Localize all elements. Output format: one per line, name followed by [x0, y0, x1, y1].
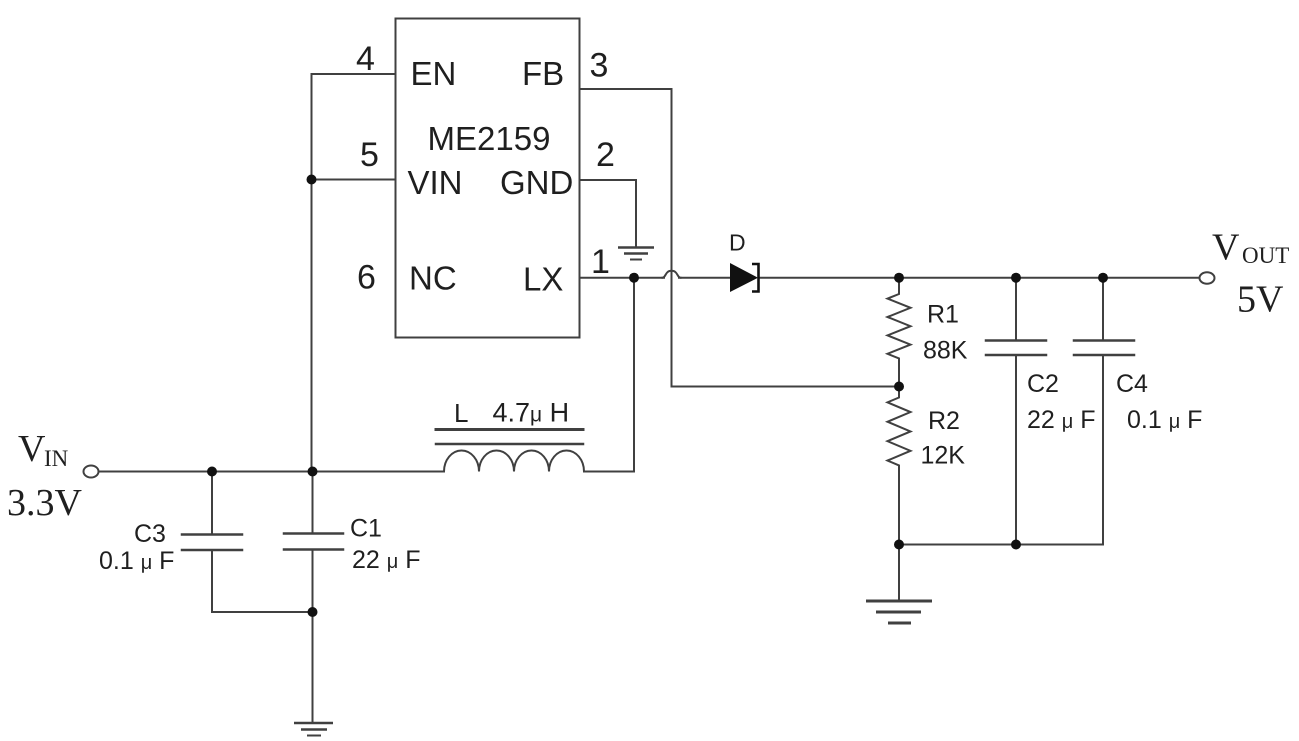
capacitor C3 plates: [182, 533, 242, 536]
svg-text:4: 4: [356, 40, 375, 78]
ground bottom-left under C1: [294, 723, 333, 736]
svg-text:D: D: [729, 230, 746, 256]
wire input terminal to inductor: [99, 471, 445, 473]
wire diode cathode to output terminal: [759, 277, 1200, 279]
svg-text:C3: C3: [134, 520, 166, 548]
inductor L winding: [444, 451, 584, 472]
wire LX junction down to inductor: [633, 278, 635, 472]
svg-text:5V: 5V: [1237, 279, 1284, 321]
wire R2 bottom ground rail: [899, 544, 1103, 546]
node R2/ground rail junction: [894, 540, 904, 550]
wire EN pin 4 horizontal: [312, 73, 396, 75]
capacitor C3 top lead: [211, 472, 213, 535]
wire FB to divider junction: [672, 386, 900, 388]
svg-text:0.1 μ F: 0.1 μ F: [99, 547, 174, 575]
svg-text:NC: NC: [409, 260, 457, 297]
node VIN pin junction: [307, 175, 317, 185]
svg-text:IN: IN: [44, 446, 69, 471]
diode D cathode bracket: [752, 264, 759, 292]
wire ground stem under R2: [898, 545, 900, 601]
capacitor C4 bottom lead: [1102, 355, 1104, 545]
wire FB vertical: [671, 89, 673, 387]
svg-text:C1: C1: [350, 515, 382, 543]
wire inductor right to LX vertical: [584, 471, 634, 473]
svg-text:VIN: VIN: [408, 164, 463, 201]
svg-text:L: L: [454, 398, 468, 428]
ground under R2: [866, 601, 932, 623]
svg-text:V: V: [18, 428, 46, 470]
capacitor C2 plates: [986, 339, 1046, 342]
capacitor C1 plates: [284, 532, 343, 535]
ground near GND pin: [618, 248, 654, 260]
node C1/C3 bottom junction: [308, 607, 318, 617]
capacitor C2 bottom lead: [1015, 355, 1017, 545]
svg-text:1: 1: [591, 243, 610, 281]
node R1/R2 FB junction: [894, 382, 904, 392]
node input/C3 junction: [207, 467, 217, 477]
svg-text:EN: EN: [411, 55, 457, 92]
wire GND vertical to ground: [635, 180, 637, 247]
inductor core bar top: [436, 428, 583, 431]
capacitor C2 top lead: [1015, 278, 1017, 341]
resistor R2: [888, 387, 911, 545]
node output/C4 junction: [1098, 273, 1108, 283]
wire FB pin 3 horizontal: [580, 88, 672, 90]
svg-text:22 μ F: 22 μ F: [352, 546, 421, 574]
diode D triangle: [730, 263, 758, 292]
node output/C2 junction: [1011, 273, 1021, 283]
node input/C1 junction: [308, 467, 318, 477]
capacitor C4 top lead: [1102, 278, 1104, 341]
wire left vertical EN/VIN/input net: [311, 74, 313, 472]
svg-text:FB: FB: [522, 55, 564, 92]
op-amp U1 ME2159 IC body: [396, 19, 580, 338]
svg-text:GND: GND: [500, 164, 573, 201]
node C2/ground rail junction: [1011, 540, 1021, 550]
svg-text:LX: LX: [523, 261, 563, 298]
svg-text:12K: 12K: [921, 442, 966, 470]
wire LX pin 1 horizontal: [580, 277, 665, 279]
svg-text:3: 3: [590, 47, 609, 85]
svg-text:V: V: [1212, 227, 1240, 269]
svg-text:2: 2: [596, 136, 615, 174]
capacitor C4 plates: [1074, 339, 1134, 342]
capacitor C3 bottom lead: [211, 550, 213, 612]
svg-text:ME2159: ME2159: [428, 120, 551, 157]
svg-text:C2: C2: [1027, 370, 1059, 398]
input terminal circle: [84, 466, 99, 478]
svg-text:3.3V: 3.3V: [7, 482, 83, 524]
svg-text:5: 5: [360, 136, 379, 174]
inductor core bar bottom: [436, 443, 583, 446]
wire GND pin 2 horizontal: [580, 179, 637, 181]
node LX junction: [629, 273, 639, 283]
svg-text:OUT: OUT: [1242, 243, 1289, 268]
node output/R1 junction: [894, 273, 904, 283]
wire hop over FB vertical: [663, 271, 681, 278]
wire C3 bottom to C1 bottom: [212, 611, 313, 613]
svg-text:R2: R2: [928, 407, 960, 435]
wire VIN pin 5 horizontal: [312, 179, 396, 181]
capacitor C1 leads on main vertical: [312, 472, 314, 534]
wire ground stem bottom-left: [312, 612, 314, 722]
resistor R1: [888, 278, 911, 387]
svg-text:C4: C4: [1116, 370, 1148, 398]
svg-text:0.1 μ F: 0.1 μ F: [1127, 406, 1202, 434]
svg-text:6: 6: [357, 259, 376, 297]
wire hop to diode anode: [679, 277, 730, 279]
svg-text:R1: R1: [927, 301, 959, 329]
output terminal circle: [1200, 272, 1215, 283]
svg-text:22 μ F: 22 μ F: [1027, 406, 1096, 434]
svg-text:88K: 88K: [923, 337, 968, 365]
